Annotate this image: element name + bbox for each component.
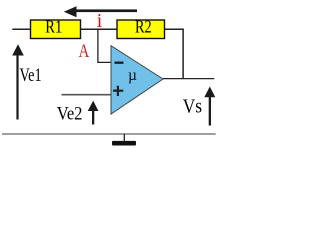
svg-text:Ve2: Ve2 (57, 104, 83, 125)
svg-text:Vs: Vs (183, 95, 202, 117)
svg-text:R1: R1 (45, 16, 62, 36)
svg-text:A: A (79, 42, 90, 62)
svg-text:Ve1: Ve1 (20, 66, 42, 86)
svg-text:i: i (97, 10, 103, 32)
svg-text:µ: µ (128, 67, 137, 84)
svg-text:R2: R2 (135, 16, 152, 36)
